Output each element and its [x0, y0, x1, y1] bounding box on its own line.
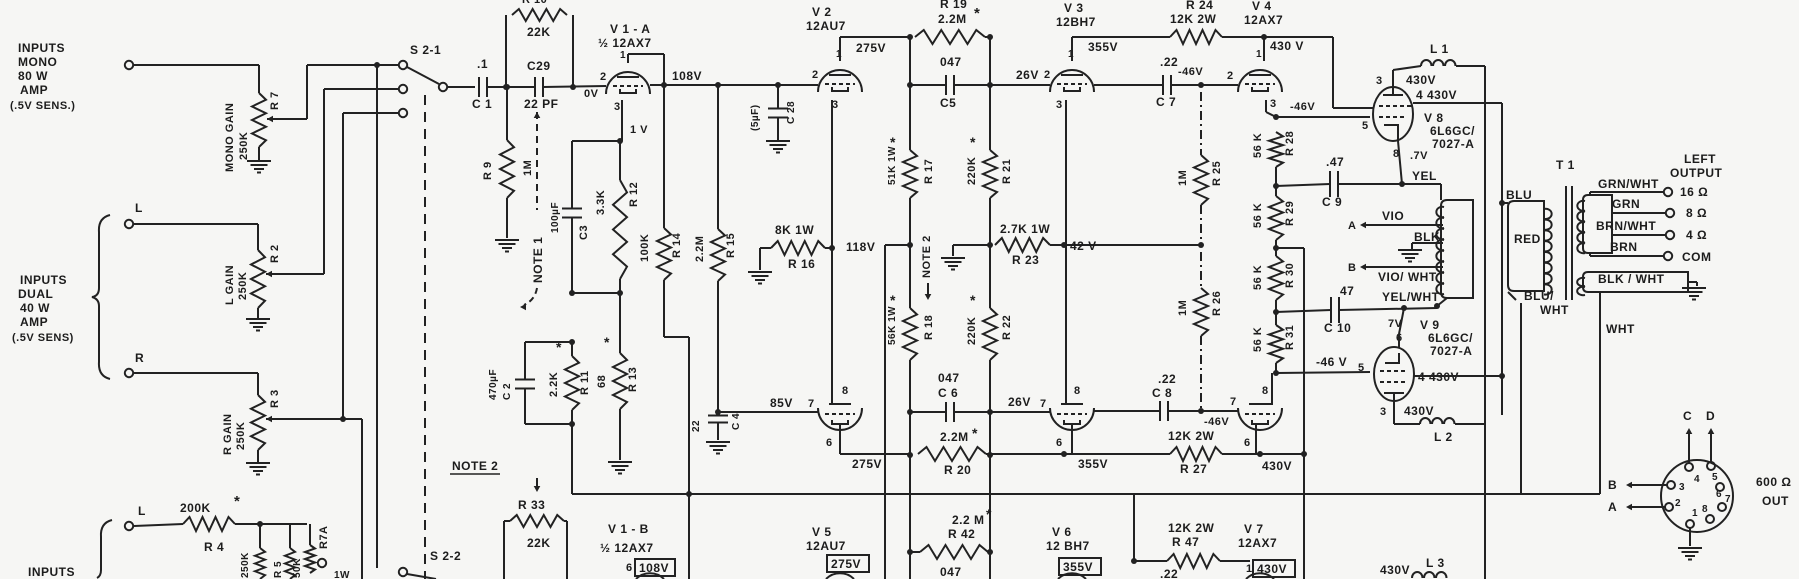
- svg-text:430 V: 430 V: [1270, 39, 1304, 53]
- svg-text:L 2: L 2: [1434, 430, 1453, 444]
- svg-text:V 5: V 5: [812, 525, 832, 539]
- svg-text:56 K: 56 K: [1252, 203, 1264, 228]
- svg-text:42 V: 42 V: [1070, 239, 1097, 253]
- svg-text:3: 3: [1056, 99, 1063, 111]
- svg-text:1W: 1W: [334, 570, 350, 579]
- svg-text:C: C: [1683, 409, 1692, 423]
- svg-text:C5: C5: [940, 96, 956, 110]
- svg-text:12AX7: 12AX7: [1244, 13, 1283, 27]
- svg-text:V 8: V 8: [1424, 111, 1444, 125]
- svg-text:4 430V: 4 430V: [1416, 88, 1457, 102]
- svg-text:51K 1W: 51K 1W: [887, 146, 898, 185]
- svg-text:L 3: L 3: [1426, 556, 1445, 570]
- svg-text:DUAL: DUAL: [18, 287, 53, 301]
- svg-text:C 2: C 2: [502, 383, 513, 400]
- svg-text:430V: 430V: [1406, 73, 1436, 87]
- svg-text:68: 68: [596, 375, 608, 388]
- svg-text:7: 7: [1040, 398, 1047, 410]
- svg-text:*: *: [970, 292, 976, 308]
- svg-text:8: 8: [1074, 385, 1081, 397]
- svg-text:3: 3: [1380, 406, 1387, 418]
- svg-text:100K: 100K: [639, 234, 651, 262]
- svg-text:R 19: R 19: [940, 0, 967, 11]
- svg-text:GRN: GRN: [1612, 197, 1640, 211]
- svg-text:22: 22: [691, 420, 702, 432]
- svg-text:½ 12AX7: ½ 12AX7: [598, 36, 652, 50]
- svg-text:5: 5: [1362, 120, 1369, 132]
- svg-text:C 6: C 6: [938, 386, 958, 400]
- svg-text:1: 1: [1246, 563, 1253, 575]
- svg-text:100µF: 100µF: [550, 202, 561, 233]
- svg-text:R 11: R 11: [579, 370, 591, 395]
- svg-text:R 10: R 10: [522, 0, 547, 6]
- svg-text:355V: 355V: [1088, 40, 1118, 54]
- svg-text:AMP: AMP: [20, 83, 48, 97]
- svg-text:L GAIN: L GAIN: [224, 265, 236, 305]
- svg-text:R 12: R 12: [628, 182, 640, 207]
- svg-text:R 24: R 24: [1186, 0, 1213, 12]
- svg-text:R 25: R 25: [1211, 161, 1223, 186]
- svg-text:C 9: C 9: [1322, 195, 1342, 209]
- svg-text:12K 2W: 12K 2W: [1168, 521, 1215, 535]
- svg-text:600 Ω: 600 Ω: [1756, 475, 1791, 489]
- svg-text:RED: RED: [1514, 232, 1541, 246]
- svg-text:200K: 200K: [180, 501, 211, 515]
- svg-text:R 30: R 30: [1284, 263, 1296, 288]
- svg-text:-46V: -46V: [1204, 416, 1229, 428]
- svg-text:V 6: V 6: [1052, 525, 1072, 539]
- svg-text:6L6GC/: 6L6GC/: [1430, 124, 1475, 138]
- svg-text:2: 2: [1227, 70, 1234, 82]
- svg-text:3.3K: 3.3K: [595, 190, 607, 215]
- svg-text:R 22: R 22: [1001, 315, 1013, 340]
- svg-text:A: A: [1348, 220, 1356, 232]
- svg-text:R 16: R 16: [788, 257, 815, 271]
- svg-text:1M: 1M: [1177, 170, 1189, 186]
- svg-text:2.2K: 2.2K: [548, 372, 560, 397]
- svg-text:8K 1W: 8K 1W: [775, 223, 814, 237]
- svg-text:355V: 355V: [1063, 560, 1093, 574]
- svg-text:R 9: R 9: [482, 161, 494, 180]
- svg-text:7: 7: [1230, 396, 1237, 408]
- svg-text:R 23: R 23: [1012, 253, 1039, 267]
- svg-text:B: B: [1348, 262, 1356, 274]
- svg-text:56K 1W: 56K 1W: [887, 306, 898, 345]
- svg-text:GRN/WHT: GRN/WHT: [1598, 177, 1659, 191]
- svg-text:L: L: [135, 201, 143, 215]
- svg-text:250K: 250K: [237, 272, 249, 300]
- svg-text:85V: 85V: [770, 396, 793, 410]
- svg-text:22 PF: 22 PF: [524, 97, 559, 111]
- svg-text:220K: 220K: [966, 157, 978, 185]
- svg-text:2.2M: 2.2M: [938, 12, 967, 26]
- svg-text:3: 3: [1270, 98, 1277, 110]
- svg-text:2.2M: 2.2M: [694, 236, 706, 262]
- svg-text:*: *: [972, 425, 978, 441]
- svg-text:WHT: WHT: [1540, 303, 1569, 317]
- svg-text:*: *: [890, 292, 896, 308]
- svg-text:BLK / WHT: BLK / WHT: [1598, 272, 1665, 286]
- svg-text:3: 3: [1679, 482, 1685, 493]
- svg-text:7027-A: 7027-A: [1430, 344, 1472, 358]
- svg-text:16 Ω: 16 Ω: [1680, 185, 1708, 199]
- svg-text:(5µF): (5µF): [750, 104, 761, 131]
- svg-text:470µF: 470µF: [488, 369, 499, 400]
- svg-text:50K: 50K: [292, 558, 303, 578]
- svg-text:8 Ω: 8 Ω: [1686, 206, 1707, 220]
- svg-text:4: 4: [1694, 474, 1700, 485]
- svg-text:2: 2: [1675, 498, 1681, 509]
- svg-text:R 33: R 33: [518, 498, 545, 512]
- svg-text:275V: 275V: [856, 41, 886, 55]
- svg-text:2: 2: [600, 71, 607, 83]
- svg-text:R 20: R 20: [944, 463, 971, 477]
- svg-text:R 47: R 47: [1172, 535, 1199, 549]
- svg-text:56 K: 56 K: [1252, 327, 1264, 352]
- svg-text:MONO: MONO: [18, 55, 57, 69]
- svg-text:COM: COM: [1682, 250, 1712, 264]
- svg-text:5: 5: [1712, 472, 1718, 483]
- svg-text:12K 2W: 12K 2W: [1168, 429, 1215, 443]
- svg-text:250K: 250K: [235, 422, 247, 450]
- svg-text:R 42: R 42: [948, 527, 975, 541]
- svg-text:430V: 430V: [1262, 459, 1292, 473]
- svg-text:-46V: -46V: [1290, 101, 1315, 113]
- svg-text:YEL/WHT: YEL/WHT: [1382, 290, 1440, 304]
- svg-text:.22: .22: [1160, 567, 1178, 579]
- svg-text:S 2-2: S 2-2: [430, 549, 461, 563]
- svg-text:R 14: R 14: [671, 232, 683, 258]
- svg-text:7: 7: [1725, 494, 1731, 505]
- svg-text:NOTE 2: NOTE 2: [452, 459, 498, 473]
- svg-text:3: 3: [1376, 75, 1383, 87]
- svg-text:7027-A: 7027-A: [1432, 137, 1474, 151]
- svg-text:56 K: 56 K: [1252, 133, 1264, 158]
- svg-text:430V: 430V: [1380, 563, 1410, 577]
- svg-text:.22: .22: [1160, 55, 1178, 69]
- svg-text:OUTPUT: OUTPUT: [1670, 166, 1723, 180]
- svg-text:047: 047: [940, 55, 962, 69]
- svg-text:WHT: WHT: [1606, 322, 1635, 336]
- svg-text:12AX7: 12AX7: [1238, 536, 1277, 550]
- svg-text:R 18: R 18: [923, 315, 935, 340]
- svg-text:1M: 1M: [522, 160, 534, 176]
- svg-text:NOTE 1: NOTE 1: [531, 237, 545, 283]
- svg-text:22K: 22K: [527, 536, 551, 550]
- svg-text:430V: 430V: [1404, 404, 1434, 418]
- svg-text:INPUTS: INPUTS: [28, 565, 75, 579]
- svg-text:4 Ω: 4 Ω: [1686, 228, 1707, 242]
- svg-text:C 1: C 1: [472, 97, 492, 111]
- svg-text:A: A: [1608, 500, 1617, 514]
- svg-text:8: 8: [1262, 385, 1269, 397]
- svg-text:BLU: BLU: [1506, 188, 1532, 202]
- svg-text:T 1: T 1: [1556, 158, 1575, 172]
- svg-text:275V: 275V: [831, 557, 861, 571]
- svg-text:1: 1: [1692, 508, 1698, 519]
- svg-text:1M: 1M: [1177, 300, 1189, 316]
- svg-text:5: 5: [1358, 362, 1365, 374]
- svg-text:BRN: BRN: [1610, 240, 1638, 254]
- svg-text:12BH7: 12BH7: [1056, 15, 1096, 29]
- svg-text:7: 7: [808, 398, 815, 410]
- svg-text:-46 V: -46 V: [1316, 355, 1347, 369]
- svg-text:.7V: .7V: [1410, 150, 1428, 162]
- svg-text:*: *: [974, 5, 980, 22]
- svg-text:(.5V SENS): (.5V SENS): [12, 332, 74, 344]
- svg-text:6: 6: [1056, 437, 1063, 449]
- svg-text:*: *: [970, 134, 976, 150]
- svg-text:VIO/ WHT: VIO/ WHT: [1378, 270, 1437, 284]
- svg-text:INPUTS: INPUTS: [20, 273, 67, 287]
- svg-text:R 29: R 29: [1284, 201, 1296, 226]
- svg-text:6: 6: [626, 562, 633, 574]
- svg-text:47: 47: [1340, 284, 1354, 298]
- svg-text:R 3: R 3: [269, 389, 281, 408]
- svg-text:V 1 - A: V 1 - A: [610, 22, 650, 36]
- svg-text:56 K: 56 K: [1252, 265, 1264, 290]
- svg-text:R 13: R 13: [627, 367, 639, 392]
- svg-text:BLK: BLK: [1414, 230, 1440, 244]
- svg-text:R 26: R 26: [1211, 291, 1223, 316]
- svg-text:26V: 26V: [1016, 68, 1039, 82]
- svg-text:V 9: V 9: [1420, 318, 1440, 332]
- svg-text:V 3: V 3: [1064, 1, 1084, 15]
- svg-text:22K: 22K: [527, 25, 551, 39]
- svg-text:V 1 - B: V 1 - B: [608, 522, 649, 536]
- svg-text:C 7: C 7: [1156, 95, 1176, 109]
- svg-text:12AU7: 12AU7: [806, 19, 846, 33]
- svg-text:047: 047: [940, 565, 962, 579]
- svg-text:8: 8: [1702, 504, 1708, 515]
- svg-text:R 27: R 27: [1180, 462, 1207, 476]
- svg-text:6: 6: [1716, 489, 1722, 500]
- svg-text:C 8: C 8: [1152, 386, 1172, 400]
- svg-text:YEL: YEL: [1412, 169, 1437, 183]
- svg-text:VIO: VIO: [1382, 209, 1404, 223]
- svg-text:12 BH7: 12 BH7: [1046, 539, 1090, 553]
- svg-text:R 2: R 2: [269, 244, 281, 263]
- svg-text:NOTE 2: NOTE 2: [921, 235, 933, 278]
- svg-text:R 5: R 5: [273, 561, 284, 578]
- svg-text:.1: .1: [477, 57, 488, 71]
- svg-text:047: 047: [938, 371, 960, 385]
- svg-text:355V: 355V: [1078, 457, 1108, 471]
- svg-text:*: *: [890, 134, 896, 150]
- svg-text:250K: 250K: [240, 552, 251, 578]
- svg-text:BRN/WHT: BRN/WHT: [1596, 219, 1656, 233]
- svg-text:118V: 118V: [846, 240, 875, 254]
- svg-text:R7A: R7A: [318, 525, 330, 549]
- svg-text:V 7: V 7: [1244, 522, 1264, 536]
- svg-text:BLU/: BLU/: [1524, 289, 1554, 303]
- svg-text:.47: .47: [1326, 155, 1344, 169]
- svg-text:2: 2: [812, 69, 819, 81]
- svg-text:250K: 250K: [238, 132, 250, 160]
- svg-text:6L6GC/: 6L6GC/: [1428, 331, 1473, 345]
- svg-text:6: 6: [826, 437, 833, 449]
- svg-text:6: 6: [1244, 437, 1251, 449]
- svg-text:C 10: C 10: [1324, 321, 1351, 335]
- svg-text:*: *: [234, 493, 240, 510]
- svg-text:-46V: -46V: [1178, 66, 1203, 78]
- svg-text:R 21: R 21: [1001, 159, 1013, 184]
- svg-text:R 4: R 4: [204, 540, 224, 554]
- svg-text:L: L: [138, 504, 146, 518]
- svg-text:2.2 M: 2.2 M: [952, 513, 985, 527]
- svg-text:½ 12AX7: ½ 12AX7: [600, 541, 654, 555]
- svg-text:1: 1: [620, 50, 626, 61]
- svg-text:R GAIN: R GAIN: [222, 414, 234, 456]
- svg-text:L 1: L 1: [1430, 42, 1449, 56]
- svg-text:R: R: [135, 351, 144, 365]
- svg-text:R 28: R 28: [1284, 131, 1296, 156]
- svg-text:V 4: V 4: [1252, 0, 1272, 13]
- svg-text:220K: 220K: [966, 317, 978, 345]
- svg-text:D: D: [1706, 409, 1715, 423]
- svg-text:(.5V SENS.): (.5V SENS.): [10, 100, 75, 112]
- svg-text:R 15: R 15: [725, 233, 737, 258]
- svg-text:2.7K 1W: 2.7K 1W: [1000, 222, 1050, 236]
- svg-text:R 31: R 31: [1284, 325, 1296, 350]
- svg-text:3: 3: [614, 101, 621, 113]
- svg-text:2.2M: 2.2M: [940, 430, 969, 444]
- svg-text:*: *: [604, 334, 610, 350]
- svg-text:S 2-1: S 2-1: [410, 43, 441, 57]
- svg-text:1 V: 1 V: [630, 124, 648, 136]
- svg-text:C 28: C 28: [786, 101, 797, 124]
- svg-text:26V: 26V: [1008, 395, 1031, 409]
- svg-text:40 W: 40 W: [20, 301, 50, 315]
- svg-text:12K 2W: 12K 2W: [1170, 12, 1217, 26]
- svg-text:B: B: [1608, 478, 1617, 492]
- svg-text:12AU7: 12AU7: [806, 539, 846, 553]
- svg-text:80 W: 80 W: [18, 69, 48, 83]
- svg-text:R 7: R 7: [269, 91, 281, 110]
- svg-text:0V: 0V: [584, 88, 599, 100]
- svg-text:INPUTS: INPUTS: [18, 41, 65, 55]
- svg-text:LEFT: LEFT: [1684, 152, 1716, 166]
- svg-text:R 17: R 17: [923, 159, 935, 184]
- svg-text:C 4: C 4: [731, 413, 742, 430]
- svg-text:V 2: V 2: [812, 5, 832, 19]
- svg-text:108V: 108V: [672, 69, 702, 83]
- svg-text:*: *: [986, 506, 992, 522]
- svg-text:8: 8: [842, 385, 849, 397]
- svg-text:MONO GAIN: MONO GAIN: [224, 103, 236, 172]
- svg-text:OUT: OUT: [1762, 494, 1789, 508]
- svg-text:C29: C29: [527, 59, 551, 73]
- svg-text:275V: 275V: [852, 457, 882, 471]
- svg-text:1: 1: [1256, 49, 1262, 60]
- svg-text:AMP: AMP: [20, 315, 48, 329]
- svg-text:C3: C3: [578, 225, 590, 240]
- svg-text:2: 2: [1044, 69, 1051, 81]
- svg-text:.22: .22: [1158, 372, 1176, 386]
